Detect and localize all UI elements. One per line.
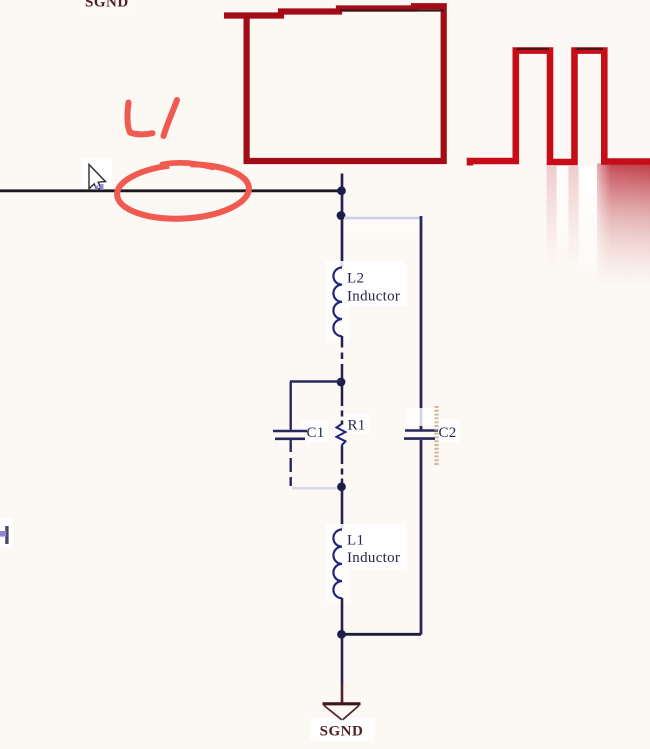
annotation: square-wave waveform (red) [470, 51, 650, 166]
wire: faint connector from C1 bottom to main net [292, 487, 339, 490]
resistor R1 (white halo) [344, 414, 370, 433]
svg-text:R1: R1 [348, 418, 366, 434]
wire: C1 bottom lead (dashed) [290, 440, 292, 452]
wire: horizontal input net [0, 189, 341, 192]
wire: main vertical net (top segment above L2) [341, 174, 344, 268]
svg-text:C1: C1 [307, 425, 325, 441]
wire: C1 top lead [290, 382, 292, 430]
white halo behind cursor [81, 158, 112, 188]
svg-text:L2: L2 [347, 271, 364, 287]
capacitor C2 (white halo over lead) [407, 408, 437, 426]
toolbar icon fragment (left edge) [0, 518, 13, 547]
svg-text:SGND: SGND [320, 724, 364, 740]
svg-text:Inductor: Inductor [347, 289, 400, 305]
annotation: handwritten 1 [164, 100, 178, 136]
inductor L2 (white halo) [326, 261, 406, 306]
capacitor C1 (white halo) [301, 420, 329, 442]
inductor L2 coil [333, 268, 342, 337]
annotation: handwritten L [127, 103, 152, 135]
node: bottom of parallel group [337, 482, 346, 491]
svg-text:Inductor: Inductor [347, 550, 400, 566]
node: bottom junction [337, 630, 346, 639]
wire: dark lines atop waveform pulses [517, 48, 550, 50]
capacitor C2 selection hatch (tan) [434, 406, 438, 466]
wire: dark schematic line under rectangle top edge [340, 9, 444, 11]
svg-text:SGND: SGND [85, 0, 129, 11]
wire: L1 to bottom node [341, 598, 344, 634]
wire: L2 to middle node (dashed-ish) [341, 336, 344, 348]
annotation: red rectangle (hand drawn) [224, 6, 444, 161]
node: junction of input net and vertical net [337, 186, 346, 195]
svg-text:L1: L1 [347, 533, 364, 549]
wire: right branch vertical (C2 bottom lead) [420, 440, 423, 635]
wire: middle node to L1 [341, 489, 344, 530]
capacitor C2 plates [405, 429, 438, 432]
ground symbol SGND [310, 704, 374, 741]
wire: R1 top lead (dashed) [341, 382, 344, 406]
capacitor C1 plates [273, 430, 307, 433]
mouse cursor [89, 165, 106, 191]
node: junction feeding right branch [337, 211, 346, 220]
resistor R1 zigzag [337, 424, 346, 446]
annotation: ellipse closing stroke [162, 163, 213, 168]
inductor L1 (white halo) [326, 524, 406, 569]
wire: bottom connector to right branch [342, 633, 421, 636]
inductor L1 coil [333, 530, 342, 599]
node: top of parallel group [337, 378, 346, 387]
annotation: ellipse circling the net [116, 161, 251, 222]
SGND net label (top, clipped) [80, 0, 135, 11]
wire: connector to C1 branch (top) [290, 380, 341, 382]
svg-text:C2: C2 [439, 425, 457, 441]
wire: R1 bottom lead (dashed) [341, 446, 344, 465]
wire: bottom node to ground [341, 634, 344, 684]
wire: right branch vertical (C2 top lead) [420, 216, 423, 430]
red motion blur (streaks below waveform) [547, 166, 557, 266]
wire: faint connector to right branch (top) [344, 220, 420, 233]
